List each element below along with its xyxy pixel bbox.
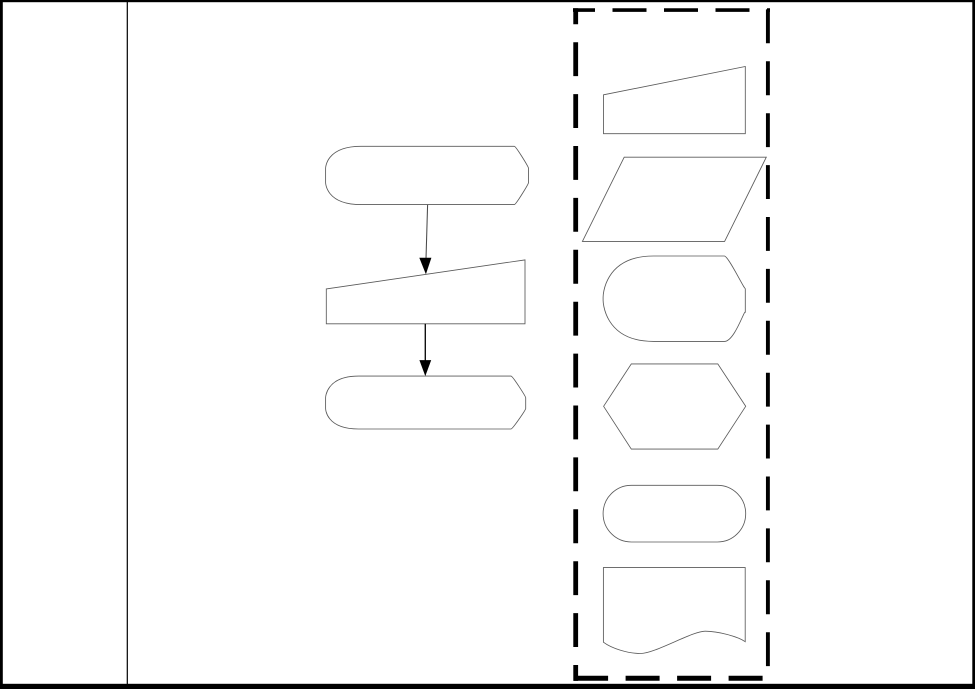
- vertical divider line: [127, 0, 128, 689]
- palette data parallelogram: [582, 157, 766, 241]
- palette dashed border bottom edge: [573, 676, 770, 681]
- outer frame top border: [0, 0, 975, 2]
- canvas terminator shape 2: [326, 376, 526, 429]
- connector arrow 1 head: [419, 258, 431, 275]
- connector arrow 2 line: [424, 324, 426, 361]
- canvas manual input shape: [326, 260, 525, 324]
- outer frame right border: [972, 0, 975, 689]
- palette document shape: [603, 568, 745, 654]
- outer frame bottom border: [0, 684, 975, 689]
- connector arrow 2 head: [419, 360, 431, 376]
- palette terminator stadium: [603, 485, 746, 542]
- connector arrow 1 line: [426, 205, 428, 259]
- palette manual input trapezoid: [604, 67, 746, 134]
- palette dashed border top edge: [573, 8, 770, 12]
- palette preparation hexagon: [604, 364, 746, 449]
- palette rounded terminator shape: [603, 256, 745, 341]
- canvas terminator shape 1: [326, 146, 529, 204]
- outer frame left border: [0, 0, 3, 689]
- palette dashed border right edge: [766, 9, 770, 680]
- palette dashed border left edge: [573, 8, 578, 681]
